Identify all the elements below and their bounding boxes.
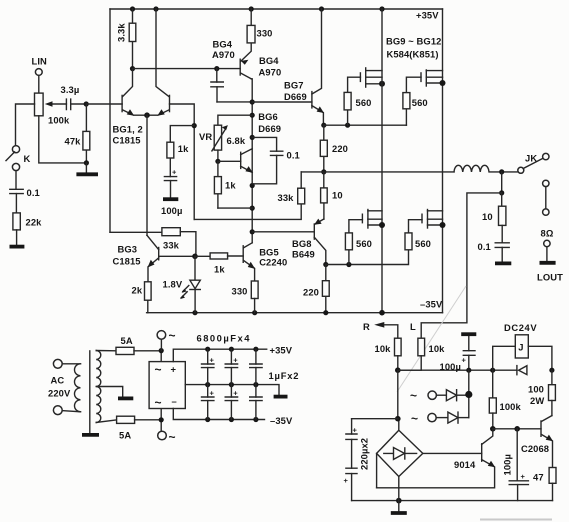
svg-text:D669: D669 [258, 123, 281, 134]
wire LIN to potentiometer [38, 75, 40, 93]
resistor 10k R [375, 338, 402, 370]
node sense bottom junction [395, 416, 401, 422]
svg-text:9014: 9014 [454, 459, 476, 470]
svg-text:1µFx2: 1µFx2 [269, 370, 300, 381]
svg-text:A970: A970 [212, 49, 235, 60]
wire scan scratch artifact [397, 286, 466, 392]
svg-text:BG1, 2: BG1, 2 [113, 124, 143, 135]
svg-text:5A: 5A [121, 335, 133, 346]
wire center tap to ground [96, 387, 133, 399]
svg-text:1k: 1k [178, 143, 189, 154]
svg-text:+: + [353, 426, 358, 435]
transistor BG3 [147, 235, 195, 281]
wire lower gate resistor rail [326, 250, 409, 265]
svg-text:10: 10 [332, 190, 343, 201]
resistor 33k input stage horizontal [110, 228, 196, 257]
node AC sense big junction [465, 391, 472, 398]
wire +35V top rail [110, 8, 443, 10]
node filter rail dots [205, 347, 258, 423]
wire BG7 base [252, 101, 312, 103]
svg-text:BG7: BG7 [284, 80, 304, 91]
svg-text:BG4: BG4 [259, 55, 279, 66]
wire output rail [301, 171, 454, 173]
node BG3 base junction [192, 253, 198, 259]
node LIN input terminal [32, 56, 48, 76]
label BG8 B649 [292, 238, 315, 260]
svg-text:560: 560 [356, 97, 372, 108]
wire 9014 base to bridge [423, 452, 482, 454]
svg-text:3.3µ: 3.3µ [61, 84, 80, 95]
wire feedback run to 33k vertical [194, 204, 301, 220]
node 560 number3 bottom [346, 262, 351, 267]
node BG8 collector junction [323, 262, 328, 267]
wire emitter tail down to BG3 collector [146, 115, 148, 235]
svg-text:C2240: C2240 [259, 257, 287, 268]
resistor 3.3k [116, 9, 136, 69]
node feedback branch junction [192, 123, 197, 128]
transistor BG7 [312, 9, 324, 125]
resistor 10 driver [321, 172, 343, 219]
label BG1,2 C1815 [113, 124, 143, 146]
svg-text:330: 330 [257, 28, 273, 39]
potentiometer VR 6.8k [199, 125, 246, 151]
wire BG8 base [252, 231, 314, 233]
wire BG2 base feedback vertical [170, 104, 195, 219]
svg-text:BG8: BG8 [292, 238, 312, 249]
svg-text:1k: 1k [225, 180, 236, 191]
resistor 1k bias [214, 161, 236, 208]
bridge rectifier protector [377, 430, 423, 476]
svg-text:10k: 10k [375, 343, 392, 354]
svg-text:LIN: LIN [32, 56, 48, 67]
node BG4 compensation tap [214, 66, 219, 71]
wire -35V bottom rail [147, 312, 443, 314]
transistor BG6 [241, 149, 253, 173]
wire left MOSFET drain-source vertical [381, 9, 383, 313]
svg-text:220V: 220V [48, 388, 71, 399]
svg-text:J: J [518, 342, 523, 353]
resistor 330 BG5 emitter [232, 281, 259, 313]
node 560 number1 bottom [345, 123, 350, 128]
wire fuse2 to bridge AC2 [135, 409, 162, 431]
svg-text:~: ~ [155, 396, 162, 410]
wire fuse to bridge AC1 [134, 351, 161, 362]
svg-text:0.1: 0.1 [478, 241, 491, 252]
switch K [6, 146, 31, 171]
svg-text:6.8k: 6.8k [227, 135, 246, 146]
transistor BG12 MOSFET lower right [422, 210, 446, 229]
svg-text:LOUT: LOUT [537, 272, 563, 283]
wire C2068 base [493, 428, 541, 430]
wire bridge zero volt rail [185, 385, 287, 397]
resistor 220 driver lower [303, 265, 329, 313]
resistor 10 zobel [482, 193, 506, 226]
wire VR top branch [218, 115, 252, 125]
svg-text:+: + [462, 356, 467, 365]
node output rail BG7 junction [321, 169, 326, 174]
relay J DC24V [493, 322, 552, 370]
wire output to zobel node [501, 172, 503, 193]
ground zobel [495, 261, 511, 265]
label BG9~BG12 MOSFETs [386, 36, 441, 60]
svg-text:3.3k: 3.3k [116, 23, 127, 42]
resistor 220 driver upper [320, 125, 348, 172]
wire bridge bottom stem [398, 477, 400, 501]
wire cap to input node [71, 103, 87, 105]
svg-text:2k: 2k [132, 285, 143, 296]
svg-text:10: 10 [482, 211, 493, 222]
wire output sense line to protector [421, 193, 502, 338]
svg-text:220: 220 [303, 287, 319, 298]
wire collector node to BG4 base [133, 68, 241, 70]
svg-text:+: + [210, 356, 215, 365]
node AC test terminal upper [157, 329, 176, 351]
svg-text:100k: 100k [500, 401, 522, 412]
svg-text:5A: 5A [119, 430, 131, 441]
wire sense node bus [398, 369, 517, 371]
node top rail junctions [130, 6, 385, 11]
svg-text:100µ: 100µ [440, 361, 461, 372]
capacitor 3.3µ [61, 84, 80, 110]
transformer T1 primary [62, 364, 80, 412]
transistor C2068 [521, 416, 553, 468]
node input junction [84, 101, 89, 106]
svg-text:~: ~ [169, 329, 176, 343]
label BG7 D669 [284, 80, 307, 103]
node R channel arrow [363, 321, 398, 338]
svg-text:~: ~ [411, 412, 418, 426]
node 10k junction [395, 367, 401, 373]
node LOUT terminal [537, 240, 563, 282]
svg-text:100: 100 [528, 384, 544, 395]
switch JK [518, 153, 549, 174]
resistor 560 gate2 [403, 77, 428, 125]
svg-text:–: – [172, 396, 177, 407]
wire pot bottom to ground node [39, 116, 87, 163]
capacitor 6800µF C2 upper [225, 349, 238, 384]
svg-text:220µx2: 220µx2 [359, 438, 370, 470]
node 100µ delay junction [514, 426, 520, 432]
fuse 5A lower [117, 416, 135, 440]
ground 22k [10, 230, 25, 247]
capacitor 220µx2 [344, 419, 398, 501]
wire AC sense to node [468, 370, 470, 417]
resistor 560 gate4 [405, 220, 431, 250]
transistor BG5 [243, 243, 255, 281]
svg-text:–35V: –35V [270, 415, 293, 426]
svg-text:33k: 33k [163, 240, 180, 251]
diode LED 1.8V [163, 256, 201, 312]
svg-text:BG6: BG6 [258, 111, 278, 122]
node AC mains terminals [48, 359, 71, 414]
svg-text:~: ~ [169, 430, 176, 444]
node 0.1 cap top junction [250, 135, 255, 140]
node output junction [499, 169, 504, 174]
svg-text:560: 560 [412, 97, 428, 108]
capacitor 6800µF C3 lower [202, 385, 215, 420]
svg-text:BG4: BG4 [213, 39, 233, 50]
svg-text:+: + [521, 472, 526, 481]
wire left frame feedback line [109, 9, 111, 232]
wire protector bottom rail [352, 500, 553, 502]
wire pot left terminal to switch K [16, 104, 35, 146]
node BG6 emitter junction [250, 183, 255, 188]
capacitor 0.1 bias [252, 137, 300, 183]
fuse 5A upper [116, 335, 134, 355]
node speaker terminals [541, 180, 554, 238]
svg-text:A970: A970 [259, 67, 282, 78]
svg-text:–35V: –35V [420, 299, 443, 310]
svg-text:BG9 ~ BG12: BG9 ~ BG12 [386, 36, 441, 47]
wire bridge top stem [398, 419, 400, 431]
node BG1 BG2 common emitter [144, 112, 150, 118]
svg-text:BG3: BG3 [118, 244, 138, 255]
transistor BG4 [240, 43, 251, 79]
resistor 1k BG5 base [195, 253, 243, 275]
svg-text:+: + [233, 356, 238, 365]
transistor BG8 [314, 219, 326, 265]
capacitor 100µ sense [462, 336, 476, 370]
node bottom rail junctions [192, 310, 384, 316]
wire predriver vertical bus [251, 79, 252, 243]
ground 100µ sense [461, 332, 476, 336]
transistor BG9 MOSFET upper left [360, 68, 385, 87]
node zobel junction [499, 190, 504, 195]
svg-text:47: 47 [533, 472, 544, 483]
label BG5 C2240 [259, 247, 287, 268]
transistor 9014 [377, 429, 496, 488]
svg-text:C1815: C1815 [113, 256, 141, 267]
svg-text:R: R [363, 321, 370, 332]
node relay right junction [549, 368, 554, 373]
svg-text:JK: JK [525, 153, 537, 164]
svg-text:0.1: 0.1 [27, 187, 40, 198]
capacitor 0.1 input [10, 171, 40, 198]
potentiometer 100k [35, 93, 70, 125]
svg-text:+: + [344, 476, 349, 485]
svg-text:K584(K851): K584(K851) [387, 49, 439, 60]
resistor 10k L [398, 338, 445, 370]
svg-text:330: 330 [232, 286, 248, 297]
node AC sense terminal 2 [411, 412, 436, 426]
transistor BG11 MOSFET lower left [362, 210, 385, 229]
capacitor 0.1 zobel [478, 225, 510, 261]
wire compensation cap to BG7 base line [217, 101, 252, 103]
svg-text:+: + [171, 364, 177, 375]
label BG4 A970 upper [212, 39, 235, 61]
bridge rectifier main [149, 362, 185, 410]
node AC sense terminal 1 [410, 389, 436, 403]
svg-text:L: L [410, 321, 416, 332]
svg-text:8Ω: 8Ω [541, 228, 554, 239]
capacitor 1µF upper [250, 349, 262, 384]
node BG8 base branch junction [250, 229, 255, 234]
capacitor 100µ tail [164, 168, 177, 198]
svg-text:+35V: +35V [270, 345, 293, 356]
svg-text:C1815: C1815 [113, 135, 141, 146]
svg-text:2W: 2W [530, 395, 544, 406]
svg-text:VR: VR [199, 131, 212, 142]
svg-text:100µ: 100µ [502, 454, 513, 475]
wire bridge plus output to +35V rail [173, 349, 266, 361]
wire upper gate resistor rail [324, 124, 407, 126]
label BG3 C1815 [113, 244, 141, 267]
wire input node to BG1 base [86, 103, 122, 105]
wire right frame MOSFET2 drain-source line [442, 9, 444, 313]
transformer T1 secondary [96, 351, 116, 423]
node 47k bottom junction [84, 160, 89, 165]
capacitor 6800µF C4 lower [225, 385, 238, 420]
resistor 47 [533, 468, 556, 501]
resistor 330 BG4 emitter [247, 9, 272, 43]
resistor 100k [489, 370, 521, 429]
svg-text:100µ: 100µ [161, 205, 182, 216]
node VR bottom junction [215, 150, 220, 164]
node bottom rail ground junction [396, 498, 402, 504]
node VR top junction [250, 113, 255, 118]
node BG7 emitter junction [321, 123, 326, 128]
transistor BG2 [147, 9, 170, 116]
diode AC sense 1 [436, 390, 468, 401]
svg-text:6800µFx4: 6800µFx4 [197, 333, 251, 344]
wire bias rail to BG5 collector [218, 207, 252, 209]
svg-text:10k: 10k [429, 343, 446, 354]
wire sense node to bridge top [397, 370, 399, 419]
svg-text:560: 560 [356, 238, 372, 249]
svg-text:+: + [172, 168, 177, 177]
diode AC sense 2 [436, 412, 469, 423]
transistor BG1 [122, 69, 147, 116]
svg-text:47k: 47k [65, 136, 82, 147]
node 100k bottom junction [490, 426, 496, 432]
transformer T1 core [82, 351, 99, 435]
label BG4 A970 lower [259, 55, 282, 78]
wire bridge minus output to -35V rail [173, 409, 264, 420]
resistor 100 2W [528, 370, 555, 415]
svg-text:~: ~ [155, 363, 162, 377]
svg-text:K: K [24, 153, 31, 164]
capacitor 1µF lower [250, 385, 262, 420]
resistor 1k tail [167, 126, 194, 177]
svg-text:AC: AC [51, 375, 65, 386]
resistor 2k [132, 282, 152, 313]
resistor 22k [13, 194, 42, 230]
svg-text:C2068: C2068 [521, 443, 549, 454]
svg-text:0.1: 0.1 [287, 150, 300, 161]
node first stage collector junction [130, 66, 135, 71]
svg-text:+35V: +35V [416, 10, 439, 21]
resistor 560 gate1 [344, 77, 371, 125]
svg-text:1k: 1k [214, 264, 225, 275]
resistor 47k [65, 104, 90, 163]
node bias rail end junction [250, 206, 255, 211]
capacitor BG4 compensation [211, 69, 223, 102]
svg-text:220: 220 [332, 143, 348, 154]
node AC1 junction [159, 348, 164, 353]
inductor output [454, 165, 518, 172]
node relay branch junction [490, 368, 495, 373]
transistor BG10 MOSFET upper right [421, 70, 446, 86]
svg-text:DC24V: DC24V [504, 322, 537, 333]
wire bridge left to 9014 emitter [376, 453, 378, 487]
diode relay flyback [517, 366, 527, 375]
node AC2 junction [159, 417, 164, 422]
node cap branch junction [466, 368, 471, 373]
svg-text:1.8V: 1.8V [163, 279, 183, 290]
svg-text:~: ~ [410, 389, 417, 403]
svg-text:33k: 33k [278, 192, 295, 203]
wire VR node to BG6 base [218, 160, 241, 162]
svg-text:+: + [210, 389, 215, 398]
svg-text:B649: B649 [292, 249, 315, 260]
svg-text:560: 560 [415, 238, 431, 249]
ground 100µ tail [161, 199, 182, 216]
svg-text:D669: D669 [284, 91, 307, 102]
svg-text:22k: 22k [26, 217, 43, 228]
resistor 560 gate3 [345, 220, 372, 265]
resistor 33k feedback vertical [278, 172, 305, 204]
svg-text:+: + [233, 389, 238, 398]
svg-text:100k: 100k [48, 115, 70, 126]
node AC test terminal lower [158, 430, 176, 444]
ground input stage [76, 163, 98, 174]
ground protector [391, 501, 407, 513]
label BG6 D669 [258, 111, 281, 134]
capacitor 100µ delay [502, 429, 529, 501]
capacitor 6800µF C1 upper [202, 349, 215, 384]
node BG7 base junction [250, 99, 255, 104]
